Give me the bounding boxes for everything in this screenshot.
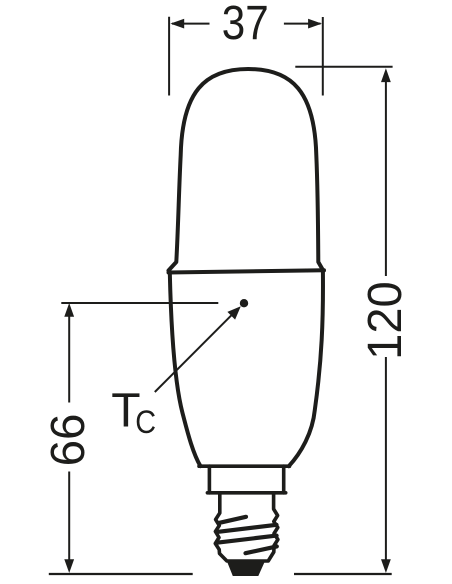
thread line 1 [220,517,247,523]
dim 37 right tick [322,17,324,96]
dim 120 vertical lower segment [385,357,387,561]
body left edge [170,273,201,467]
dim 120 reference line top [295,66,392,68]
dim 66 vertical lower segment [68,472,70,562]
dim 66 top arrowhead [64,303,74,317]
dim 66 vertical upper segment [68,315,70,403]
thread line 2 [218,525,276,532]
dim 120 bottom arrowhead [381,559,391,573]
Tc leader arrowhead [227,306,240,319]
dim 37 left arrow tail [172,23,210,25]
dim 37 right arrowhead [308,19,322,29]
ground baseline right segment [294,573,392,575]
body right edge [289,271,323,466]
collar bottom line [207,491,285,495]
dim 66 bottom arrowhead [64,559,74,573]
Tc point dot [240,299,248,307]
dim 37 left tick [168,17,170,96]
solder tip [227,562,265,577]
svg-text:120: 120 [358,281,412,359]
collar right side [282,466,286,493]
thread line 4 [246,546,277,553]
dim 120 vertical upper segment [385,79,387,276]
svg-text:C: C [135,404,156,440]
ground baseline left segment [49,573,193,575]
dim 37 right arrow tail [284,23,321,25]
thread line 3 [218,536,277,543]
Tc leader line [155,313,234,392]
dim 66 reference line [61,302,218,304]
collar top line [199,464,290,468]
dim 120 top arrowhead [381,68,391,82]
dim 37 left arrowhead [170,19,184,29]
collar left side [208,466,212,493]
dome body separation line [169,270,325,272]
svg-text:37: 37 [222,0,269,50]
bulb dome outline [169,69,324,271]
svg-text:66: 66 [41,414,95,467]
screw shell outline [215,493,278,561]
